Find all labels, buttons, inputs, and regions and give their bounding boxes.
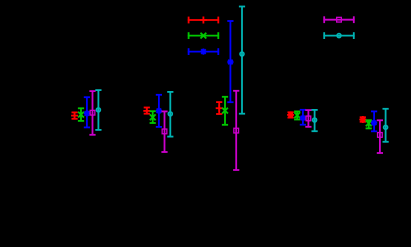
legend sample magenta series: [323, 16, 354, 23]
cluster 5 magenta errorbar: [377, 120, 383, 153]
cluster 3 cyan errorbar: [239, 7, 245, 114]
cluster 4 cyan errorbar: [312, 110, 318, 131]
cluster 5 green errorbar: [366, 120, 372, 128]
cluster 4 red solid overlap patch: [288, 113, 293, 118]
cluster 2 red errorbar: [143, 107, 150, 114]
cluster 5 red errorbar: [359, 116, 366, 123]
cluster 3 magenta errorbar: [233, 91, 239, 170]
cluster 3 blue errorbar: [227, 21, 233, 102]
cluster 3 green errorbar: [222, 97, 228, 125]
legend sample red series: [188, 17, 219, 24]
cluster 1 blue errorbar: [84, 97, 90, 127]
cluster 5 blue errorbar: [371, 111, 377, 131]
cluster 4 red errorbar: [287, 111, 294, 118]
cluster 5 cyan errorbar: [383, 109, 389, 142]
legend sample cyan series: [323, 32, 354, 39]
cluster 3 red errorbar: [216, 102, 223, 114]
cluster 4 magenta errorbar: [305, 110, 311, 127]
cluster 4 green errorbar: [294, 111, 300, 119]
cluster 4 blue errorbar: [300, 110, 306, 125]
cluster 1 cyan errorbar: [95, 90, 101, 130]
legend sample green series: [188, 32, 219, 39]
cluster 5 red solid overlap patch: [360, 117, 365, 122]
cluster 2 blue errorbar: [156, 95, 162, 127]
cluster 2 cyan errorbar: [167, 92, 173, 137]
cluster 1 green errorbar: [78, 108, 84, 121]
cluster 2 magenta errorbar: [161, 111, 167, 152]
cluster 2 green errorbar: [150, 111, 156, 123]
legend sample blue series: [188, 48, 219, 55]
cluster 1 magenta errorbar: [89, 91, 95, 135]
cluster 1 red errorbar: [71, 112, 78, 119]
